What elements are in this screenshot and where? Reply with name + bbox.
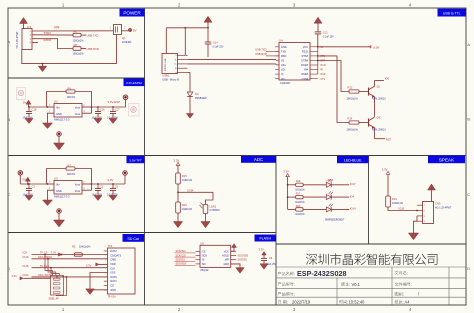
svg-text:SMD_4P: SMD_4P	[49, 296, 60, 300]
ground below R16	[173, 222, 182, 228]
svg-text:AMS1117-3.3: AMS1117-3.3	[54, 118, 70, 122]
svg-text:VCC: VCC	[224, 250, 229, 253]
capacitor C2	[97, 183, 99, 185]
svg-text:D: D	[467, 266, 470, 271]
ground below C2	[97, 194, 99, 196]
resistor R17	[287, 196, 289, 198]
svg-text:C16: C16	[100, 108, 105, 112]
svg-text:R19: R19	[392, 197, 397, 201]
svg-text:100Ω±1%: 100Ω±1%	[73, 53, 85, 56]
svg-text:A: A	[467, 42, 470, 47]
svg-text:HC-1.25-4PWT: HC-1.25-4PWT	[435, 206, 452, 209]
svg-text:C13: C13	[323, 31, 328, 35]
svg-text:3.3V: 3.3V	[373, 45, 380, 49]
sd socket stubs	[104, 250, 108, 252]
resistor R5 pullup	[74, 253, 82, 256]
ground below C1	[28, 194, 30, 196]
wire TXD0 net	[32, 34, 73, 36]
svg-text:USB TXD: USB TXD	[255, 48, 266, 52]
svg-text:IO26: IO26	[399, 207, 405, 211]
svg-text:R7: R7	[68, 163, 72, 167]
wire 5V rail tft	[20, 183, 47, 185]
resistor R12	[349, 90, 359, 93]
wire flash gnd	[231, 264, 240, 268]
sd socket TF1	[108, 248, 136, 294]
svg-text:A4: A4	[405, 300, 411, 305]
wire U2 vin	[48, 106, 55, 108]
svg-text:D4: D4	[195, 92, 199, 96]
svg-text:R5: R5	[72, 245, 76, 249]
wire U3 gnd pin	[48, 190, 55, 199]
ground flag GND tft	[57, 209, 61, 213]
svg-text:3.3V-ESP32: 3.3V-ESP32	[126, 81, 142, 85]
svg-text:C14: C14	[213, 42, 218, 45]
svg-text:SDI/SD1: SDI/SD1	[238, 259, 248, 262]
svg-text:R15: R15	[182, 174, 187, 178]
ground U3	[47, 199, 49, 202]
svg-text:CLK: CLK	[110, 266, 115, 270]
title row product name	[278, 272, 295, 276]
svg-text:Vout: Vout	[75, 183, 80, 187]
svg-text:TF CS: TF CS	[40, 251, 48, 255]
section label FLASH	[255, 235, 277, 242]
svg-text:DCD: DCD	[321, 65, 326, 67]
svg-text:RTS#: RTS#	[302, 55, 309, 58]
title row product model	[278, 282, 295, 286]
wire 3.3V rail tft	[92, 183, 126, 185]
connector CN3	[423, 202, 434, 224]
title block border	[276, 243, 466, 245]
svg-text:SI: SI	[202, 259, 205, 262]
title row product number	[278, 292, 295, 296]
transistor Q1 gate wire	[116, 35, 118, 64]
section label 3.3V-TFT	[127, 156, 145, 163]
svg-text:3.3V: 3.3V	[51, 251, 57, 255]
junction rail vin tft	[47, 183, 49, 185]
company name 深圳市晶彩智能有限公司	[306, 253, 438, 265]
svg-text:CTS: CTS	[321, 79, 326, 81]
resistor R19	[386, 196, 391, 207]
net label IO0	[375, 80, 385, 82]
resistor R20	[288, 208, 296, 210]
svg-text:GND: GND	[223, 263, 229, 266]
ground below C18	[28, 117, 30, 119]
wire +5V net	[122, 30, 129, 32]
wire 3.3V ch340	[317, 46, 319, 48]
resistor network RN1	[51, 276, 64, 296]
svg-text:2022/7/19: 2022/7/19	[292, 300, 311, 305]
wire ground rail POWER	[22, 50, 117, 64]
svg-text:R16: R16	[182, 203, 187, 207]
svg-text:C3: C3	[115, 185, 119, 189]
capacitor C14	[207, 28, 209, 42]
svg-text:Vout: Vout	[75, 106, 80, 110]
svg-text:VDD: VDD	[110, 262, 116, 266]
svg-text:CD/DAT3: CD/DAT3	[110, 253, 121, 257]
svg-text:USB1: USB1	[162, 74, 170, 78]
svg-text:3.3V: 3.3V	[174, 158, 180, 162]
svg-text:3.3V-ESP: 3.3V-ESP	[108, 100, 121, 104]
svg-text:1MΩ±1%: 1MΩ±1%	[182, 179, 193, 182]
led LED1	[303, 184, 326, 186]
svg-text:P6SB10W: P6SB10W	[195, 97, 207, 100]
svg-text:UD+: UD+	[281, 64, 287, 67]
bypass loop resistor R4	[47, 92, 67, 108]
svg-text:ESP-2432S028: ESP-2432S028	[297, 269, 347, 278]
svg-text:IO4: IO4	[350, 194, 355, 198]
ground below C16	[97, 117, 99, 119]
connector P1	[22, 29, 32, 50]
svg-text:GND: GND	[56, 112, 62, 116]
title row date	[278, 300, 287, 304]
wire U3 vin	[48, 183, 55, 185]
section divider vertical x=276	[275, 156, 277, 306]
svg-text:XO: XO	[281, 78, 285, 81]
svg-text:C: C	[7, 192, 10, 197]
wire usb vbus to 5V rail	[184, 28, 186, 56]
power flag VCC usb	[204, 16, 212, 22]
wire USB D+ to CH340	[188, 63, 276, 65]
section divider vertical x=144	[144, 8, 146, 305]
svg-text:RI#: RI#	[304, 69, 309, 72]
net label IO4	[331, 196, 349, 198]
transistor Q1 AO3401	[114, 25, 122, 35]
esd diode D4	[188, 72, 190, 74]
bypass loop resistor R7	[47, 169, 67, 185]
section divider vertical x=368.5	[368, 156, 370, 245]
svg-text:NPN_S9013: NPN_S9013	[372, 129, 386, 132]
svg-text:3.3V: 3.3V	[382, 167, 388, 171]
wire U2 vout pins	[82, 106, 92, 108]
svg-text:U2: U2	[54, 100, 58, 104]
wire 3.3V-ESP rail	[92, 106, 126, 108]
svg-text:R20: R20	[296, 205, 301, 208]
wire LDR to ground	[205, 214, 207, 222]
svg-text:DAT1: DAT1	[110, 279, 117, 283]
svg-text:R12: R12	[348, 86, 353, 90]
svg-text:CS: CS	[202, 250, 206, 253]
svg-text:Q3: Q3	[377, 115, 381, 119]
svg-text:TXD: TXD	[281, 50, 286, 53]
svg-text:0.1uF 25V: 0.1uF 25V	[323, 35, 334, 38]
svg-text:1MΩ±1%: 1MΩ±1%	[182, 208, 193, 211]
svg-text:R232: R232	[302, 50, 309, 53]
svg-text:P1: P1	[28, 25, 32, 29]
svg-text:IO19: IO19	[23, 255, 29, 259]
svg-text:R14: R14	[348, 117, 353, 121]
section label POWER	[120, 9, 145, 17]
power flag 5V esp	[26, 100, 31, 104]
svg-text:3.3V: 3.3V	[86, 263, 92, 267]
wires rows to resistor network	[45, 255, 52, 276]
svg-text:Q2: Q2	[377, 84, 381, 88]
svg-text:U4: U4	[279, 39, 283, 43]
usb connector USB1	[162, 54, 178, 74]
svg-text:3.3V: 3.3V	[108, 178, 114, 182]
wire USB TXD net	[81, 34, 86, 36]
svg-text:WP: WP	[225, 259, 229, 262]
regulator U3 AMS1117-3.3	[54, 181, 82, 195]
svg-text:UD-: UD-	[281, 69, 286, 72]
svg-text:C18: C18	[32, 108, 37, 112]
svg-text:USB - Micro B: USB - Micro B	[162, 77, 179, 81]
svg-text:5V: 5V	[22, 178, 26, 182]
transistor Q3 NPN_S9013	[359, 122, 369, 124]
svg-text:B: B	[7, 117, 10, 122]
svg-text:R8: R8	[74, 43, 78, 47]
svg-text:DTR#: DTR#	[301, 60, 308, 63]
svg-text:A: A	[7, 40, 10, 45]
svg-text:C1: C1	[32, 185, 36, 189]
resistor R6	[73, 33, 81, 37]
resistor R15	[176, 173, 181, 184]
wire speak net	[388, 207, 417, 211]
svg-text:R17: R17	[296, 193, 301, 196]
svg-text:CMD: CMD	[110, 258, 116, 262]
svg-text:1KΩ±1%: 1KΩ±1%	[295, 213, 305, 216]
svg-text:VCC: VCC	[303, 46, 308, 49]
capacitor C17	[112, 106, 114, 108]
svg-text:GND: GND	[56, 189, 62, 193]
svg-text:3.3V: 3.3V	[259, 248, 265, 252]
power port 3.3V tft	[124, 175, 126, 184]
svg-text:USB RXD: USB RXD	[87, 47, 99, 51]
svg-text:GT36516: GT36516	[210, 209, 221, 212]
capacitor C1	[28, 183, 30, 185]
power port 5V tft	[18, 171, 22, 175]
section label USB to TTL	[438, 9, 467, 17]
svg-text:25Q32: 25Q32	[200, 268, 209, 272]
capacitor C8	[261, 257, 267, 259]
svg-text:3.3V: 3.3V	[12, 274, 18, 278]
led LED2	[303, 196, 326, 198]
svg-text:R6: R6	[74, 29, 78, 33]
ground below C8	[260, 264, 268, 269]
svg-text:CH340C: CH340C	[280, 81, 290, 85]
power flag VCC ch340	[314, 17, 322, 23]
ground flag GND esp	[57, 132, 61, 136]
wire sd vss to ground	[90, 273, 108, 289]
section label 3.3V-ESP32	[124, 79, 145, 87]
ic U5 25Q32	[200, 245, 231, 267]
svg-text:0Ω±1%: 0Ω±1%	[67, 96, 76, 99]
svg-text:SD Car: SD Car	[127, 237, 140, 241]
ground below D4	[186, 114, 193, 119]
svg-text:5V: 5V	[23, 101, 27, 105]
svg-text:IO5: IO5	[23, 251, 28, 255]
svg-text:DCD#: DCD#	[301, 64, 308, 67]
regulator U2 AMS1117-3.3	[54, 104, 82, 118]
svg-text:DAT2: DAT2	[110, 249, 117, 253]
svg-text:IO14: IO14	[350, 207, 356, 211]
svg-text:SDO/SD0: SDO/SD0	[238, 255, 249, 258]
ground speak	[408, 233, 418, 240]
svg-text:VIN: VIN	[54, 26, 60, 30]
svg-text:C2: C2	[100, 185, 104, 189]
svg-text:RI: RI	[321, 70, 324, 72]
svg-text:HC-1.25-4PWT: HC-1.25-4PWT	[16, 31, 19, 49]
power port 3.3V-ESP	[125, 100, 127, 108]
section label SD Car	[123, 234, 145, 242]
wire DTR to Q1 base	[317, 60, 319, 62]
svg-text:R18: R18	[296, 180, 301, 183]
ghost marker left 3.3V-ESP32	[17, 88, 26, 100]
capacitor C16	[97, 106, 99, 108]
svg-text:3.3V-TFT: 3.3V-TFT	[129, 158, 142, 162]
net label RST	[375, 138, 386, 140]
svg-text:XI: XI	[281, 73, 284, 76]
svg-text:FLASH: FLASH	[259, 237, 271, 241]
svg-text:IO23: IO23	[23, 273, 29, 277]
svg-text:IO0: IO0	[385, 77, 390, 81]
svg-text:10KΩ±1%: 10KΩ±1%	[347, 129, 359, 132]
wire RXD0 net	[32, 39, 73, 49]
ground POWER	[42, 64, 44, 67]
svg-text:USB TXD: USB TXD	[87, 33, 99, 37]
section label SPEAK	[428, 156, 465, 164]
svg-text:HOLD: HOLD	[222, 255, 229, 258]
wire row4 drop	[56, 277, 66, 296]
svg-text:C: C	[467, 192, 470, 197]
svg-text:LED1: LED1	[326, 179, 333, 182]
svg-text:IO34: IO34	[188, 188, 194, 192]
svg-text:CTS#: CTS#	[302, 78, 309, 81]
wire RTS to Q2 base	[317, 55, 319, 57]
transistor Q2 NPN_S9013	[359, 91, 369, 93]
wire U3 vout pins	[82, 183, 92, 185]
resistor R16 adc	[176, 202, 181, 213]
section divider horizontal y=78 left column	[8, 77, 145, 79]
svg-text:0Ω±1%: 0Ω±1%	[67, 173, 76, 176]
svg-text:AO3401: AO3401	[122, 40, 132, 44]
ground below C3	[112, 194, 114, 196]
svg-text:IO17: IO17	[350, 182, 356, 186]
svg-text:LDR1: LDR1	[210, 204, 217, 208]
capacitor C18	[28, 107, 30, 112]
svg-text:U3: U3	[54, 177, 58, 181]
resistor R14	[349, 121, 359, 124]
svg-text:R4: R4	[68, 86, 72, 90]
photoresistor LDR1 GT36516	[206, 192, 214, 204]
svg-text:POWER: POWER	[123, 11, 141, 16]
svg-text:V0.1: V0.1	[352, 282, 361, 287]
svg-text:0.1uF 25V: 0.1uF 25V	[213, 45, 224, 48]
svg-text:C17: C17	[115, 108, 120, 112]
svg-text:B: B	[467, 117, 470, 122]
svg-text:TF-01A: TF-01A	[108, 296, 117, 299]
ground flash	[236, 268, 245, 274]
capacitor C3	[112, 183, 114, 185]
ground U2	[47, 122, 49, 125]
wire adc middle	[177, 184, 179, 202]
svg-text:U5: U5	[200, 242, 204, 246]
power port 5V	[129, 29, 132, 32]
svg-text:Q1: Q1	[122, 36, 126, 40]
ground sd	[86, 289, 95, 295]
junction rail vin	[47, 106, 49, 108]
wire P1 pin4 stub	[32, 42, 38, 44]
power flag 5V tft arrow	[25, 177, 30, 181]
svg-text:ADC: ADC	[254, 157, 263, 162]
svg-text:SPEAK: SPEAK	[439, 157, 455, 162]
ground below LDR1	[201, 222, 210, 228]
led LED3	[303, 208, 326, 210]
svg-text:TF1: TF1	[108, 244, 113, 248]
svg-text:DAT0: DAT0	[110, 275, 117, 279]
power flag VCC speak	[428, 184, 436, 190]
ghost marker right 3.3V-ESP32	[129, 104, 140, 117]
svg-text:RXD0: RXD0	[44, 38, 52, 42]
svg-text:CN3: CN3	[435, 202, 441, 206]
power flag VCC P1	[20, 18, 28, 24]
svg-text:Vin: Vin	[56, 106, 60, 110]
svg-text:MHP5050RGBDT: MHP5050RGBDT	[325, 219, 345, 222]
svg-text:CD: CD	[110, 284, 114, 288]
wire USB RXD net	[81, 48, 86, 50]
svg-text:D: D	[7, 266, 10, 271]
svg-text:IO18: IO18	[23, 264, 29, 268]
svg-text:SO: SO	[202, 263, 206, 266]
wire 5V rail	[29, 106, 48, 108]
svg-text:USB to TTL: USB to TTL	[443, 12, 461, 16]
svg-text:SCK/CLK: SCK/CLK	[176, 254, 187, 257]
svg-text:LED-BLUE: LED-BLUE	[344, 158, 362, 162]
svg-text:10:52:40: 10:52:40	[349, 300, 366, 305]
svg-text:D-: D-	[175, 59, 177, 61]
wire flash vcc	[231, 248, 234, 252]
svg-text:10KΩ±1%: 10KΩ±1%	[392, 202, 404, 205]
wire ch340 vcc rail	[317, 34, 319, 47]
svg-text:TXD0: TXD0	[44, 31, 52, 35]
wire 5V rail usb	[166, 27, 208, 29]
wire R16 to ground	[177, 213, 179, 222]
wire ch340 right vertical	[317, 47, 319, 74]
svg-text:10KΩ±1%: 10KΩ±1%	[79, 246, 91, 249]
svg-text:RST: RST	[386, 137, 392, 141]
svg-text:SCK: SCK	[202, 255, 207, 258]
wire Q2 emitter to Q3 collector	[374, 97, 376, 117]
svg-text:GND: GND	[110, 288, 116, 292]
svg-text:3.3V: 3.3V	[283, 170, 289, 174]
svg-text:DSR#: DSR#	[301, 73, 308, 76]
svg-text:100Ω±1%: 100Ω±1%	[73, 39, 85, 42]
svg-text:5V: 5V	[133, 29, 137, 33]
svg-text:RXD: RXD	[281, 55, 286, 58]
ic U4 CH340C	[279, 43, 310, 81]
wire USB D- to CH340	[188, 59, 276, 61]
svg-text:Vout: Vout	[75, 112, 80, 116]
svg-text:VSS: VSS	[110, 271, 115, 275]
section label LED-BLUE	[337, 156, 369, 163]
section divider horizontal y=155.5 full width	[8, 155, 466, 157]
svg-text:Vin: Vin	[56, 183, 60, 187]
resistor R8	[73, 47, 81, 51]
svg-text:AMS1117-3.3: AMS1117-3.3	[54, 195, 70, 199]
svg-text:USB RXD: USB RXD	[255, 52, 267, 56]
svg-text:GND: GND	[281, 46, 287, 49]
svg-text:MICRO USB: MICRO USB	[165, 58, 167, 71]
net label IO17	[331, 184, 349, 186]
svg-text:1KΩ±1%: 1KΩ±1%	[295, 201, 305, 204]
svg-text:DSR: DSR	[321, 74, 326, 76]
ground below C17	[112, 117, 114, 119]
net label IO14	[331, 208, 349, 210]
capacitor C13	[315, 31, 322, 33]
wire CN3 to ground	[416, 216, 418, 221]
svg-text:1KΩ±1%: 1KΩ±1%	[295, 189, 305, 192]
svg-text:Vout: Vout	[75, 189, 80, 193]
section label ADC	[241, 156, 276, 163]
